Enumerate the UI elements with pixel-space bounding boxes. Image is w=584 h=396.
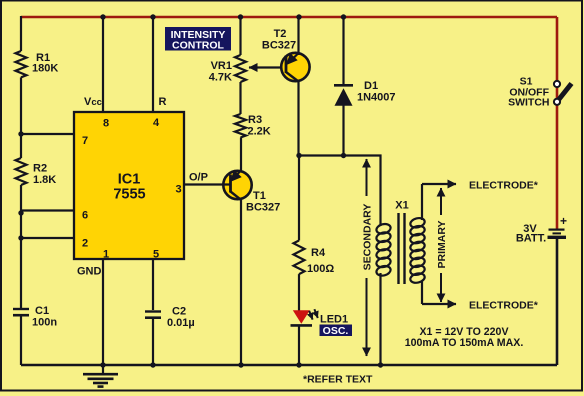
transistor T1 BC327: [223, 171, 280, 214]
wire VR1 to R3: [239, 82, 241, 114]
svg-text:R: R: [159, 96, 167, 108]
node on rail T2 emitter: [296, 14, 301, 19]
wire rail to D1 cathode: [342, 17, 344, 85]
top electrode arrow: [422, 183, 456, 185]
VR1 wiper arrow wire to T2 base: [249, 66, 286, 68]
switch S1: [508, 76, 571, 109]
svg-text:D1: D1: [364, 80, 378, 92]
node LED1 at ground rail: [296, 362, 301, 367]
svg-text:BC327: BC327: [262, 40, 296, 52]
wire pin 6: [21, 209, 74, 211]
wire pin 5 to C2: [152, 259, 154, 310]
svg-text:*REFER TEXT: *REFER TEXT: [303, 374, 373, 386]
bottom electrode arrow: [422, 303, 456, 305]
svg-text:CONTROL: CONTROL: [172, 40, 224, 52]
svg-text:O/P: O/P: [189, 172, 208, 184]
svg-text:LED1: LED1: [320, 314, 348, 326]
wire T2 collector down: [297, 81, 299, 156]
wire primary top to electrode: [421, 184, 423, 220]
wire T1 collector to ground rail: [240, 199, 242, 365]
wire C2 to ground rail: [152, 319, 154, 365]
X1 spec note: [405, 326, 524, 349]
OSC. callout: [320, 325, 353, 338]
resistor R2: [16, 158, 57, 186]
svg-text:C1: C1: [35, 305, 49, 317]
bottom ground rail: [21, 364, 557, 367]
wire LED1 cathode to ground rail: [298, 326, 300, 365]
node on rail pin 8: [100, 14, 105, 19]
svg-text:GND: GND: [77, 266, 102, 278]
SECONDARY span arrow: [362, 159, 374, 356]
wire pin 7: [21, 133, 74, 135]
transformer X1 primary winding: [409, 217, 425, 285]
svg-text:Vcc: Vcc: [84, 96, 102, 108]
wire pin 1 to ground rail: [102, 259, 104, 365]
INTENSITY CONTROL callout: [165, 27, 231, 52]
node on rail pin 4: [150, 14, 155, 19]
node: junction R1/R2 to pin7: [18, 131, 23, 136]
svg-text:7555: 7555: [113, 187, 145, 203]
svg-text:100Ω: 100Ω: [307, 263, 334, 275]
transformer X1 secondary winding: [375, 223, 391, 277]
transistor T2 BC327: [262, 28, 310, 82]
node T1 at ground rail: [238, 362, 243, 367]
svg-text:OSC.: OSC.: [323, 325, 349, 337]
svg-text:100mA TO 150mA MAX.: 100mA TO 150mA MAX.: [405, 337, 524, 349]
wire rail to T2 emitter: [297, 17, 299, 55]
svg-text:SECONDARY: SECONDARY: [362, 204, 374, 271]
node C2 at ground rail: [150, 362, 155, 367]
resistor R3: [235, 114, 271, 138]
wire pin 2: [21, 237, 74, 239]
svg-text:VR1: VR1: [211, 60, 232, 72]
svg-text:1: 1: [103, 249, 109, 261]
potentiometer VR1: [209, 55, 246, 84]
svg-text:2: 2: [82, 238, 88, 250]
svg-text:PRIMARY: PRIMARY: [436, 220, 448, 268]
svg-text:C2: C2: [172, 306, 186, 318]
wire primary bottom to electrode: [421, 281, 423, 304]
wire Vcc pin 8: [102, 17, 104, 112]
svg-text:R2: R2: [33, 163, 47, 175]
node D1 junction: [341, 153, 346, 158]
svg-text:ELECTRODE*: ELECTRODE*: [469, 180, 539, 192]
svg-text:BATT.: BATT.: [516, 233, 546, 245]
node: junction to pin 2: [18, 235, 23, 240]
svg-text:R3: R3: [248, 114, 262, 126]
node T2 collector junction: [296, 153, 301, 158]
resistor R1: [16, 51, 59, 77]
right rail lower segment (battery minus to ground rail): [556, 239, 559, 366]
svg-text:T2: T2: [274, 28, 287, 40]
svg-text:3: 3: [175, 184, 181, 196]
PRIMARY span arrow: [436, 188, 448, 302]
svg-text:4: 4: [153, 117, 160, 129]
LED1: [291, 309, 349, 325]
battery BATT 3V: [516, 214, 567, 245]
svg-text:R4: R4: [311, 247, 326, 259]
svg-text:100n: 100n: [32, 317, 57, 329]
svg-text:0.01µ: 0.01µ: [167, 317, 195, 329]
left branch wire (R1/R2/C1 column): [20, 16, 22, 365]
svg-text:IC1: IC1: [118, 172, 141, 188]
svg-text:180K: 180K: [32, 63, 58, 75]
wire D1 anode down: [342, 105, 344, 156]
svg-text:+: +: [560, 214, 567, 228]
svg-text:1.8K: 1.8K: [33, 174, 56, 186]
node on rail D1: [341, 14, 346, 19]
wire secondary bottom to ground rail: [379, 273, 381, 365]
svg-text:4.7K: 4.7K: [209, 72, 232, 84]
ground symbol: [83, 365, 118, 387]
svg-text:5: 5: [153, 249, 159, 261]
wire rail to VR1: [239, 17, 241, 55]
svg-text:2.2K: 2.2K: [248, 126, 271, 138]
svg-text:T1: T1: [253, 190, 266, 202]
svg-text:BC327: BC327: [246, 202, 280, 214]
svg-text:1N4007: 1N4007: [357, 92, 396, 104]
wire R pin 4: [152, 17, 154, 112]
svg-text:7: 7: [82, 135, 88, 147]
top positive rail (red): [21, 16, 557, 19]
wire junction row to secondary top: [299, 156, 381, 227]
wire junction to R4: [298, 156, 300, 241]
node on rail VR1: [238, 14, 243, 19]
resistor R4: [294, 241, 335, 276]
svg-text:8: 8: [103, 118, 109, 130]
node: junction to pin 6: [18, 210, 23, 215]
right rail upper segment (red) to battery: [556, 17, 559, 229]
capacitor C2: [145, 306, 195, 330]
svg-text:6: 6: [82, 210, 88, 222]
IC1 7555 body: [74, 112, 184, 259]
capacitor C1: [13, 305, 57, 329]
transformer X1 core: [399, 213, 405, 284]
node pin1 at ground rail: [100, 362, 105, 367]
wire pin 3 to T1 base: [184, 183, 231, 185]
node secondary at ground rail: [378, 362, 383, 367]
wire R3 to T1 emitter: [240, 138, 242, 172]
svg-text:X1: X1: [395, 200, 408, 212]
wire R4 to LED1: [298, 274, 300, 311]
svg-text:SWITCH: SWITCH: [508, 97, 549, 109]
diode D1 1N4007: [334, 80, 396, 106]
svg-text:ELECTRODE*: ELECTRODE*: [469, 300, 539, 312]
